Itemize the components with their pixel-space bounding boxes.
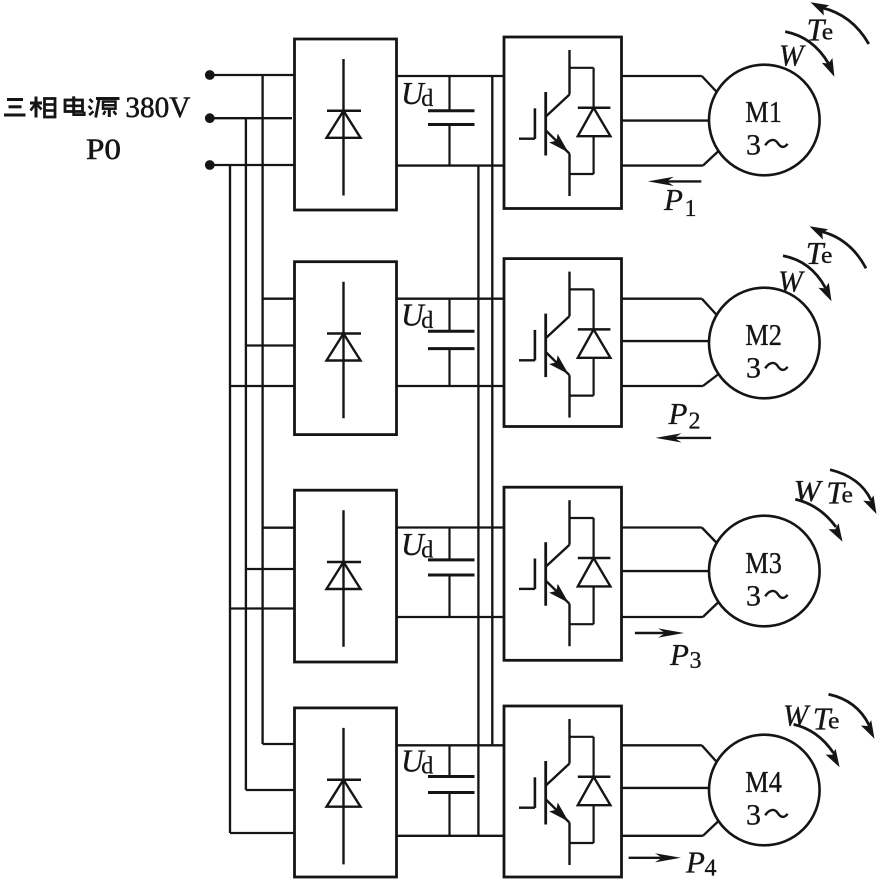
svg-text:P: P (685, 845, 705, 880)
svg-text:W: W (783, 697, 812, 732)
svg-text:4: 4 (705, 856, 717, 880)
svg-text:e: e (828, 709, 840, 735)
svg-text:e: e (842, 483, 854, 509)
svg-text:P: P (668, 396, 688, 431)
svg-text:e: e (822, 20, 834, 46)
svg-text:d: d (421, 537, 433, 563)
svg-text:P0: P0 (86, 133, 121, 166)
svg-text:3: 3 (746, 579, 761, 612)
svg-text:2: 2 (689, 409, 701, 435)
svg-text:d: d (421, 308, 433, 334)
svg-text:3: 3 (746, 798, 761, 831)
svg-text:W: W (779, 38, 807, 73)
svg-text:3: 3 (690, 648, 702, 674)
svg-text:P: P (663, 182, 683, 217)
svg-text:d: d (421, 754, 433, 780)
svg-text:M2: M2 (745, 317, 782, 352)
svg-text:P: P (669, 637, 689, 672)
svg-text:3: 3 (746, 351, 761, 384)
svg-text:380V: 380V (125, 91, 190, 124)
svg-text:M4: M4 (745, 764, 782, 799)
svg-text:d: d (421, 86, 433, 112)
svg-text:M3: M3 (745, 545, 782, 580)
svg-text:3: 3 (746, 128, 761, 161)
svg-text:M1: M1 (745, 94, 782, 129)
svg-text:W: W (778, 263, 806, 298)
svg-text:1: 1 (685, 196, 697, 222)
svg-text:e: e (821, 243, 833, 269)
